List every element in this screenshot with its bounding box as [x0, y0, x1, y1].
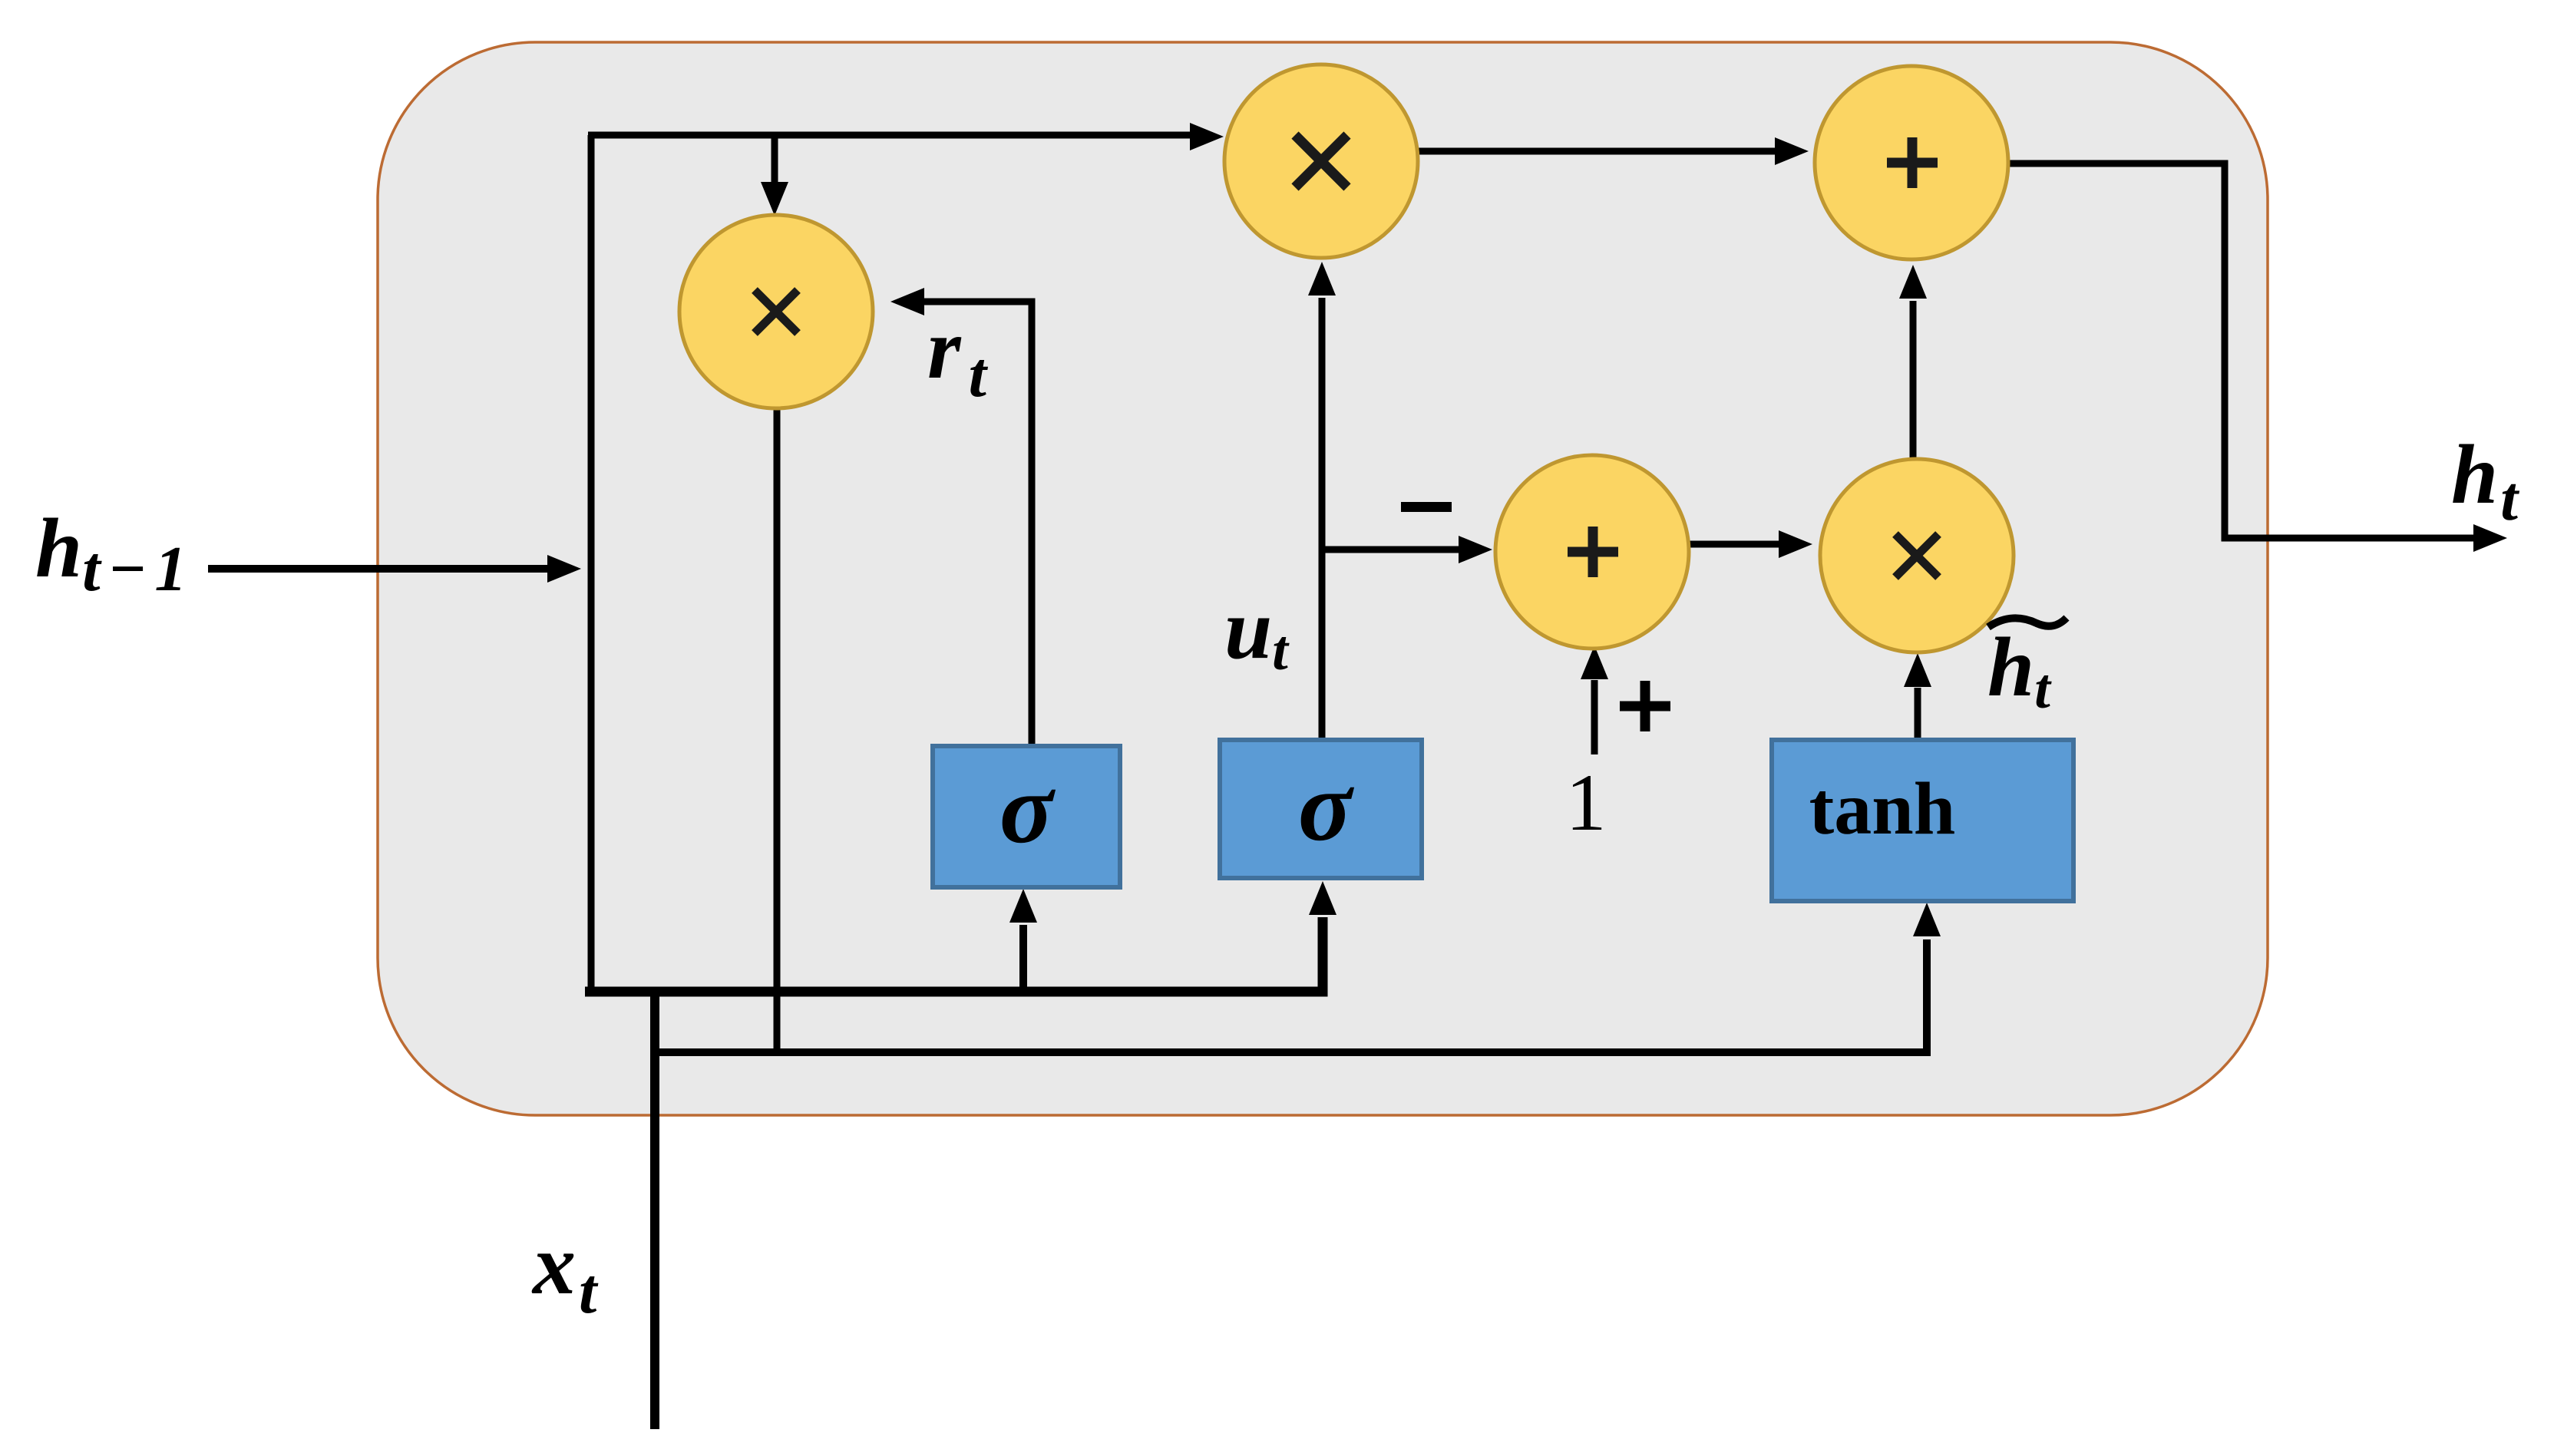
multiply node: reset gate	[679, 215, 873, 408]
sigma box: reset gate sigma1	[933, 746, 1120, 887]
svg-text:ht−1: ht−1	[35, 501, 194, 605]
label plus sign	[1620, 681, 1670, 731]
wire: tanh output up into candidate multiply	[1915, 688, 1921, 740]
wire: candidate multiply up into plus node	[1910, 301, 1917, 459]
wire: branch down into reset multiply	[771, 135, 778, 184]
svg-text:ht: ht	[2451, 428, 2519, 533]
wire: r(t) from sigma1 up and left into reset multiply	[921, 302, 1032, 746]
GRU cell body	[378, 42, 2268, 1115]
multiply node: candidate gate	[1820, 459, 2014, 652]
wire: h(t) output from plus node	[2008, 163, 2476, 538]
svg-text:tanh: tanh	[1809, 768, 1956, 850]
wire: reset multiply output down to x(t) bus	[774, 408, 781, 1055]
tanh box: candidate activation	[1772, 740, 2073, 901]
wire: top horizontal to update multiply	[588, 132, 1198, 139]
wire: constant one arrow into adder	[1591, 680, 1598, 754]
svg-text:σ: σ	[999, 754, 1056, 864]
wire: update multiply output to plus node	[1418, 148, 1777, 155]
wire: one-minus adder output to candidate multiply	[1689, 541, 1781, 548]
svg-text:1: 1	[1566, 758, 1607, 847]
wire: x(t) input vertical	[650, 992, 659, 1429]
wire: branch up into sigma1	[1019, 925, 1027, 992]
wire: vertical h(t-1) trunk	[588, 135, 595, 996]
plus node: output sum	[1815, 66, 2008, 259]
wire: u(t) from sigma2 up into update multiply	[1319, 298, 1326, 740]
label minus sign	[1401, 502, 1452, 512]
svg-text:σ: σ	[1298, 751, 1355, 862]
svg-text:xt: xt	[531, 1217, 599, 1327]
multiply node: update gate	[1224, 64, 1418, 258]
wire: u(t) branch right into one-minus adder	[1322, 546, 1460, 553]
sigma box: update gate sigma2	[1220, 740, 1422, 878]
wire: x(t) bus to tanh	[655, 939, 1927, 1052]
wire: h(t-1) bus to sigma gates	[585, 917, 1323, 992]
wire: h(t-1) input arrow	[208, 565, 554, 573]
plus node: one-minus adder	[1495, 455, 1689, 649]
